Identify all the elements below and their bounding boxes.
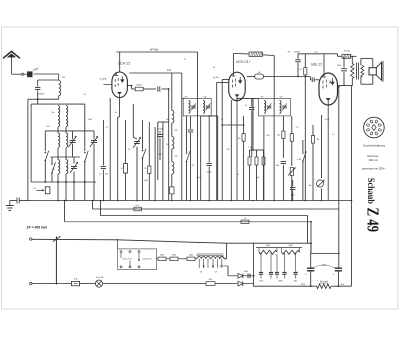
svg-text:2000: 2000	[88, 119, 92, 121]
trimmer CT2 outside	[91, 140, 97, 142]
trimmer T1a	[191, 105, 196, 107]
svg-text:Z 49: Z 49	[363, 208, 382, 233]
transformer T3 primary	[351, 64, 354, 79]
bus D	[65, 221, 312, 223]
resistor trio R6	[256, 150, 258, 157]
wire x217.7 stub	[217, 116, 219, 201]
svg-text:Sockelschaltung: Sockelschaltung	[363, 143, 385, 147]
IF transformer T1 box	[183, 98, 211, 116]
svg-text:Heizstrom: Heizstrom	[367, 154, 379, 158]
transformer T4 right coil	[220, 257, 224, 259]
node J10	[253, 275, 255, 277]
resistor R3 hatched	[249, 52, 263, 56]
coil L7	[66, 133, 68, 147]
wire grid drop a	[217, 82, 229, 84]
tube V1 right stub	[127, 85, 131, 87]
bus C	[100, 215, 307, 217]
wire T2 feed	[237, 97, 258, 99]
svg-text:20k: 20k	[238, 138, 241, 140]
speaker LS1 cone	[376, 62, 381, 80]
electrolytic C5	[125, 120, 127, 164]
wire bus3 right2	[338, 55, 343, 57]
wire x110 drop	[109, 98, 111, 201]
wire link y116	[201, 115, 218, 117]
node J2	[44, 181, 46, 183]
bus B	[93, 208, 339, 210]
wire below box	[57, 182, 59, 201]
resistor R11	[312, 125, 314, 136]
coil L11 chain	[171, 123, 173, 136]
svg-text:50: 50	[121, 168, 123, 170]
capacitor C4	[102, 120, 104, 166]
tube V3 cathode	[326, 98, 331, 101]
coil L6	[58, 133, 60, 147]
resistor trio R5	[249, 150, 251, 157]
svg-text:gemessen bei 220V~: gemessen bei 220V~	[362, 168, 386, 171]
coil T2b	[280, 101, 282, 114]
svg-text:0,1: 0,1	[84, 94, 87, 96]
wire 12V line	[129, 72, 182, 74]
node J1	[37, 98, 39, 100]
wire x338.5 long	[338, 87, 340, 254]
svg-text:500: 500	[47, 126, 50, 128]
trimmer T2b	[282, 105, 287, 107]
wire x253 drop	[252, 99, 254, 151]
tube V3 top stub	[323, 73, 325, 77]
resistor R12	[304, 54, 306, 68]
svg-text:50k: 50k	[309, 185, 312, 187]
wire V1 anode row	[132, 88, 136, 90]
svg-text:L: L	[314, 179, 315, 181]
coil L8	[58, 160, 60, 174]
wire L8 bottom	[57, 174, 59, 182]
wire antenna to cap	[12, 73, 22, 75]
switch S7 mains	[55, 237, 57, 284]
wire V1 top to bus	[119, 52, 121, 72]
wire x155 drop	[154, 127, 156, 201]
wire V2 top up	[232, 54, 234, 73]
svg-text:5000: 5000	[144, 180, 148, 182]
wire 12V down	[181, 73, 183, 201]
svg-text:200-220 V: 200-220 V	[142, 259, 152, 261]
wire V1 row2	[131, 86, 133, 90]
svg-text:30k: 30k	[316, 139, 319, 141]
wire T1 top	[182, 97, 183, 99]
transformer T4 coils	[197, 257, 210, 259]
ground GND1	[9, 201, 11, 206]
svg-text:500: 500	[166, 119, 169, 121]
wire h nested	[158, 121, 169, 123]
svg-text:5000: 5000	[266, 245, 270, 247]
svg-text:HF-Takt: HF-Takt	[150, 49, 159, 52]
svg-text:0,1: 0,1	[237, 174, 240, 176]
coil L3	[58, 117, 60, 127]
zigzag R20	[259, 250, 277, 254]
socket pins	[378, 128, 382, 131]
diode D1	[228, 275, 238, 277]
coil L5	[66, 117, 68, 127]
resistor R19	[206, 282, 215, 286]
svg-text:50: 50	[128, 149, 130, 151]
trimmer CT4	[132, 104, 134, 137]
switch S3	[51, 163, 53, 165]
wire osc bus down	[197, 52, 199, 201]
svg-text:500: 500	[175, 156, 178, 158]
tube V2 anode	[239, 77, 241, 84]
IF transformer T2 box	[258, 98, 290, 116]
tube V3 grid dashes	[322, 81, 324, 84]
svg-text:500: 500	[280, 96, 283, 98]
svg-text:Schaub: Schaub	[365, 178, 375, 204]
transformer T4 tap arrows	[203, 266, 205, 268]
svg-text:25: 25	[184, 59, 186, 61]
selector box	[118, 249, 157, 270]
coil L2	[58, 106, 60, 116]
wire trio top	[250, 149, 264, 151]
capacitor C14 5000pF	[343, 56, 345, 67]
wire x157.8	[157, 122, 159, 180]
node J6	[84, 181, 86, 183]
svg-text:50: 50	[213, 67, 215, 69]
wire heater top right	[227, 242, 311, 244]
wire elco left	[310, 253, 312, 267]
switch S2	[84, 152, 86, 154]
wire x231.3 drop	[230, 100, 232, 201]
trimmer T2a	[267, 105, 272, 107]
fuse F1	[72, 281, 80, 285]
node J7	[168, 88, 170, 90]
svg-text:1850: 1850	[160, 255, 164, 257]
trimmer T1b	[206, 105, 211, 107]
wire x168 down	[168, 89, 170, 201]
selector pins top	[120, 251, 122, 253]
wire R17 R18	[178, 258, 187, 260]
transformer T3 core	[356, 63, 358, 80]
svg-text:6V 0,1A: 6V 0,1A	[96, 276, 104, 279]
svg-text:5000: 5000	[337, 65, 341, 67]
transformer T4 taps	[198, 259, 200, 268]
tube V3 bottom stub	[327, 101, 329, 201]
tube V1 top stub	[115, 72, 117, 76]
wire box feed	[37, 99, 39, 104]
wire bus2 cont	[263, 54, 275, 57]
coil T1a	[189, 101, 191, 114]
svg-text:ZF = 468 kHz: ZF = 468 kHz	[26, 226, 48, 230]
wire x117.7 drop	[118, 101, 120, 117]
coil T2a	[264, 101, 266, 114]
svg-text:0,1: 0,1	[106, 127, 109, 129]
capacitor C9	[249, 107, 254, 109]
wire inner mid	[51, 156, 81, 158]
wire elco right	[338, 253, 340, 267]
capacitor C11 5000	[292, 180, 294, 187]
wire busC left down	[99, 201, 101, 216]
svg-text:500: 500	[166, 144, 169, 146]
switch S5	[186, 116, 188, 152]
wire CT2 stub	[85, 130, 94, 132]
wire inner top	[45, 130, 85, 132]
resistor R17	[170, 257, 178, 260]
coil T1b	[203, 101, 205, 114]
mains line lower	[32, 283, 72, 285]
svg-text:2k: 2k	[192, 165, 194, 167]
electrolytic C16	[307, 267, 314, 269]
wire V3 top up	[323, 55, 325, 73]
svg-text:500: 500	[175, 130, 178, 132]
svg-text:Drossel: Drossel	[320, 280, 329, 283]
tube V2 top stub	[232, 72, 234, 76]
wire grid drop b	[222, 79, 229, 81]
wire x190.5 drop	[190, 116, 192, 129]
bottom line right	[254, 285, 314, 287]
coil L10 chain	[171, 73, 173, 111]
tube V2 grid dashes	[231, 80, 233, 83]
svg-text:1,5M: 1,5M	[248, 147, 252, 149]
label arc	[313, 265, 335, 268]
wire x162.9	[162, 122, 164, 201]
wire bus2 down	[273, 56, 275, 101]
svg-text:4600: 4600	[189, 255, 193, 257]
socket center	[372, 125, 376, 131]
wire x311 link	[310, 243, 312, 253]
selector arrows	[120, 253, 122, 258]
svg-text:70: 70	[244, 218, 246, 220]
svg-text:50k: 50k	[277, 135, 280, 137]
wire busB left down	[92, 201, 94, 210]
resistor R4 20k	[243, 116, 245, 134]
wire left drop	[28, 98, 38, 100]
tone control TC1	[321, 115, 323, 178]
svg-text:5k: 5k	[332, 134, 334, 136]
tube V1 bottom stub	[118, 95, 120, 101]
wire selector to R16	[157, 258, 158, 260]
wire rect vert	[253, 243, 255, 286]
tube V1 anode	[121, 76, 123, 82]
wire anode join	[338, 85, 345, 87]
tube V2 UCH21 envelope	[229, 72, 246, 101]
wire x200.7 drop	[200, 116, 202, 201]
speaker LS1 frame	[360, 58, 362, 65]
svg-text:UCH 21 i: UCH 21 i	[236, 60, 251, 64]
node J11	[310, 242, 312, 244]
svg-text:0,1: 0,1	[245, 105, 248, 107]
resistor R9	[291, 116, 293, 134]
capacitor C3	[157, 86, 159, 91]
svg-text:500pF: 500pF	[38, 94, 45, 96]
svg-text:300: 300	[159, 154, 162, 156]
wire R19 right	[215, 283, 236, 285]
wire inner left	[44, 131, 46, 151]
node busA dots	[57, 200, 59, 202]
resistor R18	[187, 257, 195, 260]
wire R16 R17	[166, 258, 170, 260]
wire cap to coil loop	[34, 73, 59, 75]
wire elco top2	[311, 252, 339, 254]
svg-text:25µF: 25µF	[243, 271, 249, 273]
resistor trio R7	[263, 150, 265, 157]
svg-text:500: 500	[276, 165, 279, 167]
wire loop coil to bottom	[58, 96, 60, 100]
svg-text:6250: 6250	[172, 255, 176, 257]
resistor R2 2k	[148, 122, 150, 166]
svg-text:a+0: a+0	[33, 188, 36, 190]
socket diagram	[364, 117, 385, 138]
selector pins bottom	[120, 266, 122, 268]
svg-text:300: 300	[267, 135, 270, 137]
trimmer CT1	[70, 140, 76, 142]
switch S1	[45, 152, 47, 154]
wire x263.9 drop	[263, 116, 265, 201]
svg-text:50: 50	[221, 119, 223, 121]
svg-text:110-125 V: 110-125 V	[122, 259, 132, 261]
tube V1 grid dashes	[114, 79, 116, 82]
wire grid line V3	[264, 76, 311, 78]
wire diode branch	[227, 266, 229, 276]
svg-text:5000: 5000	[291, 194, 295, 196]
divider cap stubs	[260, 275, 262, 278]
wire R13 to T3	[351, 55, 357, 57]
wire loop top	[38, 79, 59, 81]
node J4	[65, 181, 67, 183]
wire bus3 right	[324, 53, 338, 55]
coil L9	[66, 160, 68, 174]
node J9	[304, 76, 306, 78]
svg-text:400pF: 400pF	[294, 51, 301, 53]
wire T4 top down	[226, 243, 228, 259]
tube V2 cathode	[235, 94, 240, 97]
svg-text:500: 500	[204, 96, 207, 98]
wire ground stub	[10, 200, 17, 202]
svg-text:0,1µF: 0,1µF	[207, 172, 213, 174]
svg-text:400Ω: 400Ω	[136, 85, 142, 87]
capacitor C12 400pF	[297, 54, 299, 59]
pickup connector TA	[37, 189, 45, 191]
node J3	[57, 181, 59, 183]
svg-text:500: 500	[52, 112, 55, 114]
svg-text:0,3: 0,3	[296, 127, 299, 129]
tube V3 UBL21 envelope	[319, 73, 338, 105]
wire box bottom	[31, 181, 96, 183]
wire V1 grid left	[103, 84, 112, 86]
svg-text:SV-Takt: SV-Takt	[344, 50, 351, 53]
svg-text:100 mA: 100 mA	[369, 158, 378, 162]
resistor R16	[158, 257, 166, 260]
wire loop left lower	[37, 90, 39, 99]
wire fuse to lamp	[80, 283, 96, 285]
wire x305 drop	[304, 77, 306, 201]
svg-text:120V: 120V	[301, 284, 306, 286]
svg-text:50k: 50k	[257, 177, 260, 179]
wire loop right down	[58, 74, 60, 80]
switch S6	[302, 140, 304, 152]
capacitor C1 250pF	[28, 72, 33, 77]
svg-text:6y 50mA: 6y 50mA	[100, 78, 108, 81]
wire box left	[30, 104, 32, 182]
resistor R14 R+C	[134, 207, 142, 211]
coil L12 chain	[171, 149, 173, 161]
wire antenna down	[11, 56, 13, 74]
oval capacitor C8 50pF	[247, 76, 255, 78]
electrolytic C17	[335, 267, 342, 269]
svg-text:12V: 12V	[167, 69, 172, 72]
svg-text:R50: R50	[209, 279, 212, 281]
antenna A1	[4, 51, 20, 58]
ground cap CG	[16, 198, 18, 204]
switch S4	[142, 120, 144, 150]
wire C3 right	[162, 88, 169, 90]
mains line upper	[32, 239, 227, 243]
wire top bus3	[298, 53, 324, 55]
wire R1 to C3	[143, 88, 156, 90]
capacitor C2 500pF	[35, 86, 40, 88]
svg-text:R+C: R+C	[136, 205, 141, 207]
diode D2	[238, 281, 243, 286]
wire J11 up	[310, 222, 312, 254]
wire loop left upper	[37, 80, 39, 86]
svg-text:5000: 5000	[288, 245, 292, 247]
wire x274.1 drop	[273, 101, 275, 201]
capacitor C6	[159, 131, 161, 134]
transformer T4 core	[197, 253, 224, 255]
divider caps	[259, 271, 263, 273]
divider taps	[260, 252, 262, 271]
capacitor C7	[208, 116, 210, 163]
wire box top	[31, 103, 85, 105]
capacitor C13 grid	[311, 78, 313, 83]
transformer T3 secondary	[361, 66, 364, 78]
node J5	[73, 181, 75, 183]
tube V1 cathode	[117, 92, 122, 95]
svg-text:500pF: 500pF	[158, 128, 164, 130]
bus A	[30, 200, 351, 202]
speaker LS1 magnet	[369, 68, 376, 75]
wire busC right down	[307, 216, 309, 244]
svg-text:500: 500	[185, 96, 188, 98]
resistor R15	[241, 220, 249, 223]
svg-text:5k: 5k	[115, 112, 117, 114]
resistor R1 400	[135, 87, 143, 91]
wire busD left down	[64, 201, 66, 222]
wire x351.4 long	[350, 86, 352, 286]
potentiometer P1	[290, 168, 293, 176]
svg-text:0,7M: 0,7M	[297, 159, 301, 161]
zigzag R21	[282, 250, 300, 254]
capacitor C10	[281, 161, 286, 163]
coil L1 antenna	[59, 81, 61, 96]
wire lamp right	[103, 283, 206, 285]
svg-text:0,5: 0,5	[299, 69, 302, 71]
resistor R13 hatched	[342, 54, 351, 58]
wire R18 to T4	[195, 258, 197, 260]
svg-text:6g-Takt: 6g-Takt	[213, 76, 219, 79]
svg-text:0,1: 0,1	[99, 174, 102, 176]
svg-text:UBL 21: UBL 21	[311, 62, 322, 66]
wire box right	[84, 104, 86, 151]
component X1	[171, 174, 173, 187]
mains terminal upper	[30, 238, 32, 240]
coil L4	[66, 106, 68, 116]
svg-text:2k: 2k	[144, 168, 146, 170]
svg-text:500: 500	[62, 77, 65, 79]
tube V3 anode	[332, 78, 334, 85]
wire avc link	[222, 124, 243, 126]
tube V2 bottom stub	[236, 97, 238, 200]
wire top bus2	[233, 53, 249, 55]
resistor R8	[282, 116, 284, 131]
lamp LP1	[95, 280, 102, 287]
capacitor C15 25uF	[247, 274, 249, 279]
divider top line	[256, 247, 302, 249]
